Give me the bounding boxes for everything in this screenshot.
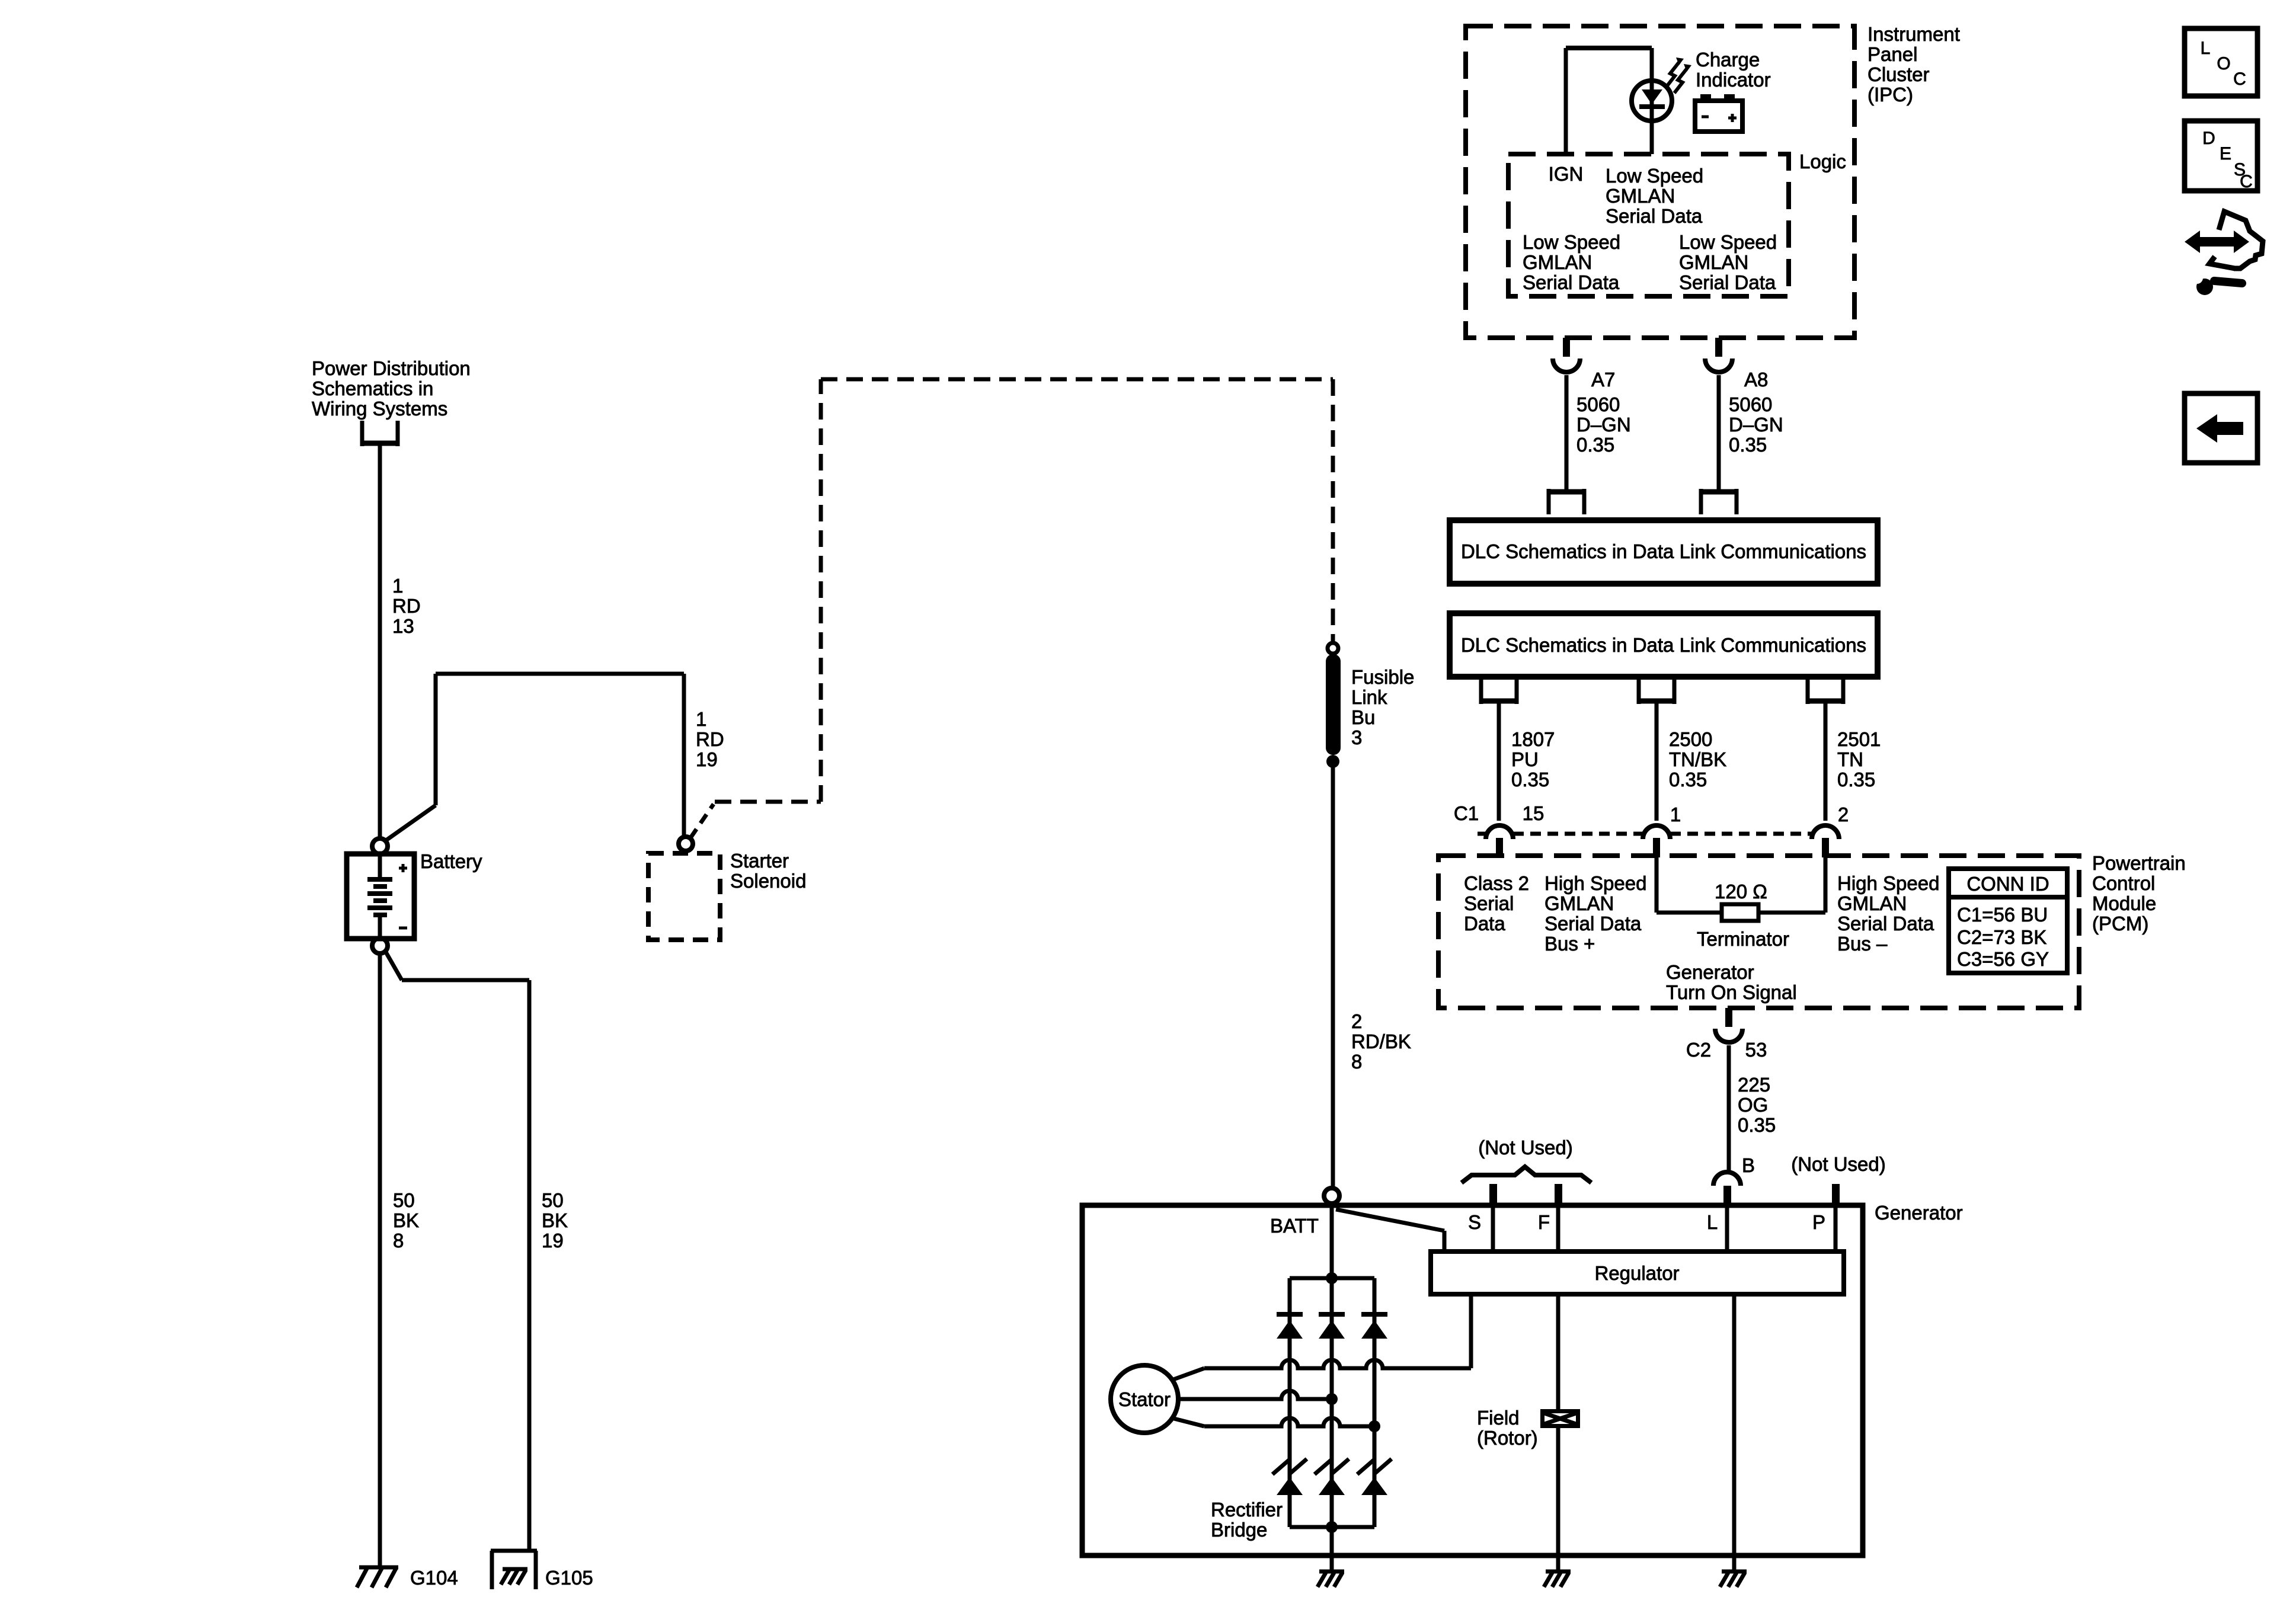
- svg-text:53: 53: [1745, 1039, 1767, 1061]
- battery + mark: [399, 867, 407, 870]
- icon: wrench: [2214, 281, 2242, 283]
- terminator resistor 120 ohm: [1722, 904, 1758, 921]
- CONN ID table: [1949, 869, 2067, 973]
- svg-text:A8: A8: [1744, 369, 1768, 391]
- svg-text:Serial Data: Serial Data: [1606, 205, 1703, 227]
- Powertrain Control Module (dashed box): [1438, 856, 2079, 1008]
- stator phase 3 wire: [1172, 1418, 1204, 1426]
- ground G105 bracket: [491, 1549, 537, 1553]
- node: starter solenoid terminal: [679, 837, 693, 851]
- svg-text:D: D: [2202, 129, 2215, 148]
- wire 5060 D-GN 0.35 from A7: [1565, 375, 1569, 494]
- svg-text:G104: G104: [410, 1567, 458, 1589]
- ground G105: [503, 1567, 527, 1571]
- svg-text:Powertrain: Powertrain: [2092, 852, 2186, 874]
- svg-text:Low Speed: Low Speed: [1679, 231, 1777, 253]
- svg-text:(PCM): (PCM): [2092, 913, 2148, 934]
- svg-text:G105: G105: [545, 1567, 593, 1589]
- diode (lower left): [1272, 1459, 1290, 1474]
- wire rectifier to ground: [1330, 1527, 1334, 1571]
- svg-text:B: B: [1742, 1154, 1755, 1176]
- connector pin A8 at IPC: [1715, 338, 1722, 357]
- svg-text:8: 8: [1351, 1051, 1362, 1073]
- svg-text:GMLAN: GMLAN: [1544, 892, 1614, 914]
- wire BATT into generator: [1330, 1204, 1334, 1278]
- wire 5060 D-GN 0.35 from A8: [1717, 375, 1721, 494]
- connector C1 pin 15: [1496, 838, 1503, 857]
- icon: double arrow: [2185, 231, 2200, 253]
- wire BATT to regulator: [1336, 1209, 1444, 1231]
- dashed wire: starter solenoid to fusible link: [690, 804, 714, 838]
- terminal from Power Distribution feed: [360, 441, 399, 446]
- svg-text:GMLAN: GMLAN: [1837, 892, 1907, 914]
- wire L to regulator: [1725, 1205, 1729, 1251]
- terminator branch wires: [1655, 857, 1659, 913]
- svg-text:TN/BK: TN/BK: [1669, 748, 1726, 770]
- wire 50 BK 19 branch: [385, 951, 402, 980]
- svg-text:C: C: [2240, 172, 2253, 191]
- svg-text:E: E: [2220, 144, 2231, 164]
- Instrument Panel Cluster (dashed box): [1466, 26, 1854, 338]
- svg-text:(Not Used): (Not Used): [1478, 1137, 1573, 1158]
- terminal out of DLC box at x=2529: [1479, 699, 1518, 704]
- svg-text:L: L: [2201, 39, 2211, 58]
- svg-text:2: 2: [1838, 804, 1849, 825]
- junction: rectifier bottom: [1326, 1521, 1338, 1533]
- svg-text:High Speed: High Speed: [1544, 872, 1646, 894]
- ground (regulator): [1722, 1570, 1747, 1574]
- svg-text:Low Speed: Low Speed: [1606, 165, 1703, 187]
- svg-text:225: 225: [1738, 1074, 1770, 1096]
- svg-text:Fusible: Fusible: [1351, 666, 1414, 688]
- svg-text:50: 50: [393, 1189, 415, 1211]
- wire 50 BK 8 (battery ground): [378, 953, 382, 1567]
- svg-text:CONN ID: CONN ID: [1966, 873, 2049, 895]
- svg-text:Serial: Serial: [1464, 892, 1514, 914]
- rectifier left leg: [1288, 1278, 1292, 1527]
- stator: [1111, 1365, 1178, 1433]
- svg-text:50: 50: [542, 1189, 564, 1211]
- diode (lower right): [1357, 1459, 1375, 1474]
- generator (solid box): [1082, 1205, 1863, 1555]
- svg-text:Indicator: Indicator: [1696, 69, 1771, 91]
- svg-text:C1=56 BU: C1=56 BU: [1957, 904, 2048, 926]
- svg-text:0.35: 0.35: [1576, 434, 1614, 456]
- svg-text:TN: TN: [1837, 748, 1863, 770]
- svg-text:Terminator: Terminator: [1697, 928, 1789, 950]
- stator phase 2 wire: [1178, 1397, 1204, 1401]
- svg-text:DLC Schematics in Data Link Co: DLC Schematics in Data Link Communicatio…: [1461, 634, 1866, 656]
- stator phase 1 wire: [1172, 1368, 1204, 1380]
- svg-text:Regulator: Regulator: [1594, 1262, 1679, 1284]
- svg-text:L: L: [1707, 1211, 1718, 1233]
- battery telltale icon: [1695, 101, 1742, 132]
- svg-text:C3=56 GY: C3=56 GY: [1957, 948, 2049, 970]
- diode (upper left): [1277, 1312, 1303, 1317]
- diode (upper right): [1361, 1312, 1387, 1317]
- svg-text:Serial Data: Serial Data: [1837, 913, 1934, 934]
- svg-text:1807: 1807: [1511, 728, 1555, 750]
- svg-text:RD/BK: RD/BK: [1351, 1030, 1411, 1052]
- terminal out of DLC box at x=3080: [1806, 699, 1845, 704]
- wire stator sense to regulator: [1469, 1294, 1473, 1368]
- node: BATT terminal circle: [1324, 1188, 1339, 1204]
- svg-text:5060: 5060: [1729, 393, 1772, 415]
- svg-text:Instrument: Instrument: [1868, 23, 1960, 45]
- svg-text:Serial Data: Serial Data: [1679, 271, 1776, 293]
- svg-text:Cluster: Cluster: [1868, 63, 1930, 85]
- svg-text:(IPC): (IPC): [1868, 84, 1913, 105]
- charge indicator light rays: [1667, 62, 1679, 87]
- battery B+ junction to starter solenoid branch: [385, 805, 436, 841]
- icon: vehicle data exchange: [2219, 212, 2263, 268]
- pin B stub: [1723, 1186, 1731, 1205]
- svg-text:O: O: [2217, 54, 2230, 73]
- svg-text:1: 1: [696, 708, 706, 730]
- wire 1 RD 13 (battery positive feed): [378, 443, 382, 838]
- diode (upper middle): [1319, 1312, 1345, 1317]
- fusible link Bu 3: [1326, 654, 1341, 755]
- terminal A7 wire into DLC box: [1547, 489, 1586, 495]
- svg-text:BK: BK: [542, 1209, 568, 1231]
- svg-text:2: 2: [1351, 1010, 1362, 1032]
- svg-text:Battery: Battery: [420, 850, 482, 872]
- svg-text:120 Ω: 120 Ω: [1715, 881, 1767, 902]
- wire from DLC box to PCM connector C1 (x=3080): [1824, 701, 1828, 821]
- wire F to regulator: [1556, 1205, 1560, 1251]
- wire S to regulator: [1491, 1205, 1495, 1251]
- svg-text:(Rotor): (Rotor): [1477, 1427, 1538, 1449]
- svg-text:Stator: Stator: [1118, 1388, 1171, 1410]
- svg-text:1: 1: [392, 575, 403, 597]
- node: fusible link bottom junction: [1326, 755, 1339, 768]
- svg-text:Bus –: Bus –: [1837, 933, 1888, 955]
- svg-text:OG: OG: [1738, 1094, 1768, 1116]
- svg-text:Generator: Generator: [1875, 1202, 1963, 1224]
- svg-text:Data: Data: [1464, 913, 1505, 934]
- wire regulator to field: [1556, 1294, 1560, 1555]
- DLC Schematics reference box (upper): [1450, 520, 1878, 584]
- svg-text:Solenoid: Solenoid: [730, 870, 806, 892]
- svg-text:RD: RD: [392, 595, 421, 617]
- svg-text:Module: Module: [2092, 892, 2156, 914]
- svg-text:13: 13: [392, 615, 414, 637]
- svg-text:2500: 2500: [1669, 728, 1712, 750]
- svg-text:Charge: Charge: [1696, 49, 1760, 71]
- svg-text:2501: 2501: [1837, 728, 1881, 750]
- svg-text:Generator: Generator: [1666, 961, 1754, 983]
- ground (rectifier): [1319, 1570, 1344, 1574]
- svg-text:0.35: 0.35: [1669, 769, 1707, 790]
- wire 225 OG 0.35: [1727, 1045, 1731, 1173]
- wire regulator/L to ground: [1732, 1294, 1737, 1555]
- svg-text:Serial Data: Serial Data: [1544, 913, 1642, 934]
- svg-text:0.35: 0.35: [1511, 769, 1549, 790]
- terminal A8 wire into DLC box: [1699, 489, 1738, 495]
- svg-text:5060: 5060: [1576, 393, 1620, 415]
- pin S stub: [1489, 1184, 1497, 1205]
- battery - mark: [399, 927, 407, 930]
- svg-text:C2: C2: [1686, 1039, 1711, 1061]
- svg-text:RD: RD: [696, 728, 724, 750]
- svg-text:Control: Control: [2092, 872, 2155, 894]
- svg-text:15: 15: [1523, 802, 1544, 824]
- svg-text:Bridge: Bridge: [1211, 1519, 1267, 1541]
- node: battery negative terminal: [372, 938, 388, 953]
- svg-text:C2=73 BK: C2=73 BK: [1957, 926, 2046, 948]
- battery: [347, 854, 414, 939]
- svg-text:Link: Link: [1351, 686, 1387, 708]
- svg-text:Panel: Panel: [1868, 43, 1917, 65]
- wire 2 RD/BK 8: [1331, 761, 1335, 1189]
- svg-text:High Speed: High Speed: [1837, 872, 1939, 894]
- svg-text:Serial Data: Serial Data: [1523, 271, 1620, 293]
- svg-text:P: P: [1812, 1211, 1825, 1233]
- svg-text:GMLAN: GMLAN: [1606, 185, 1675, 207]
- svg-text:Starter: Starter: [730, 850, 789, 872]
- svg-text:Logic: Logic: [1799, 151, 1846, 172]
- svg-text:0.35: 0.35: [1729, 434, 1767, 456]
- svg-text:Wiring Systems: Wiring Systems: [312, 398, 447, 420]
- icon: LOC box: [2185, 28, 2257, 96]
- svg-text:C1: C1: [1454, 802, 1479, 824]
- svg-text:GMLAN: GMLAN: [1679, 251, 1748, 273]
- svg-text:1: 1: [1670, 804, 1681, 825]
- svg-text:F: F: [1538, 1211, 1550, 1233]
- pin F stub: [1555, 1184, 1562, 1205]
- pin P stub: [1832, 1184, 1840, 1205]
- svg-text:3: 3: [1351, 726, 1362, 748]
- rectifier top bus: [1290, 1276, 1374, 1281]
- connector pin A7 at IPC: [1563, 338, 1570, 357]
- DLC Schematics reference box (lower): [1450, 613, 1878, 677]
- charge indicator LED: [1632, 81, 1672, 121]
- svg-text:Power Distribution: Power Distribution: [312, 357, 471, 379]
- svg-text:Rectifier: Rectifier: [1211, 1499, 1283, 1521]
- svg-text:19: 19: [696, 748, 718, 770]
- svg-text:8: 8: [393, 1230, 404, 1251]
- svg-text:C: C: [2233, 69, 2246, 89]
- connector C1 pin 2: [1822, 838, 1829, 857]
- field (rotor) winding symbol: [1540, 1409, 1580, 1428]
- svg-text:A7: A7: [1591, 369, 1615, 391]
- svg-text:Turn On Signal: Turn On Signal: [1666, 981, 1797, 1003]
- diode (lower middle): [1315, 1459, 1332, 1474]
- junction: BATT / rectifier top: [1326, 1272, 1338, 1284]
- terminal out of DLC box at x=2795: [1637, 699, 1676, 704]
- rectifier bottom bus: [1290, 1525, 1374, 1529]
- svg-text:Bu: Bu: [1351, 706, 1375, 728]
- svg-text:GMLAN: GMLAN: [1523, 251, 1592, 273]
- svg-text:PU: PU: [1511, 748, 1539, 770]
- node: fusible link top: [1328, 643, 1338, 654]
- svg-text:0.35: 0.35: [1738, 1114, 1776, 1136]
- svg-text:Bus +: Bus +: [1544, 933, 1595, 955]
- class 2 serial data stub into PCM: [1498, 856, 1502, 860]
- svg-text:BK: BK: [393, 1209, 419, 1231]
- svg-text:(Not Used): (Not Used): [1791, 1153, 1886, 1175]
- wire P to regulator: [1834, 1205, 1838, 1251]
- starter solenoid (dashed box): [648, 853, 720, 940]
- svg-text:Field: Field: [1477, 1407, 1520, 1429]
- svg-text:0.35: 0.35: [1837, 769, 1875, 790]
- wire from DLC box to PCM connector C1 (x=2529): [1497, 701, 1501, 821]
- svg-text:19: 19: [542, 1230, 564, 1251]
- svg-text:BATT: BATT: [1270, 1215, 1319, 1237]
- icon: back arrow box: [2185, 393, 2257, 463]
- wire: IGN feed to charge indicator: [1564, 48, 1568, 154]
- icon: DESC box: [2185, 121, 2257, 191]
- svg-text:DLC Schematics in Data Link Co: DLC Schematics in Data Link Communicatio…: [1461, 540, 1866, 562]
- brace over S and F pins: [1462, 1167, 1591, 1183]
- ground G104: [359, 1566, 398, 1570]
- wire field to ground: [1556, 1555, 1560, 1571]
- connector C1 dashed line: [1478, 832, 1488, 836]
- svg-text:IGN: IGN: [1549, 163, 1584, 185]
- wire from DLC box to PCM connector C1 (x=2795): [1655, 701, 1659, 821]
- svg-text:Schematics in: Schematics in: [312, 377, 433, 399]
- svg-text:D–GN: D–GN: [1576, 414, 1631, 436]
- connector C1 pin 1: [1653, 838, 1660, 857]
- battery internal plates: [378, 856, 382, 878]
- rectifier right leg: [1373, 1278, 1377, 1527]
- node: battery positive terminal: [372, 838, 388, 854]
- connector pin B: [1713, 1172, 1741, 1186]
- svg-text:S: S: [1468, 1211, 1481, 1233]
- svg-text:D–GN: D–GN: [1729, 414, 1783, 436]
- IPC Logic block (dashed box): [1508, 154, 1789, 296]
- ground (field): [1546, 1570, 1571, 1574]
- rectifier middle leg: [1330, 1278, 1334, 1527]
- regulator box: [1431, 1251, 1844, 1294]
- svg-text:Low Speed: Low Speed: [1523, 231, 1620, 253]
- connector C2 pin 53: [1725, 1008, 1732, 1027]
- svg-text:Class 2: Class 2: [1464, 872, 1529, 894]
